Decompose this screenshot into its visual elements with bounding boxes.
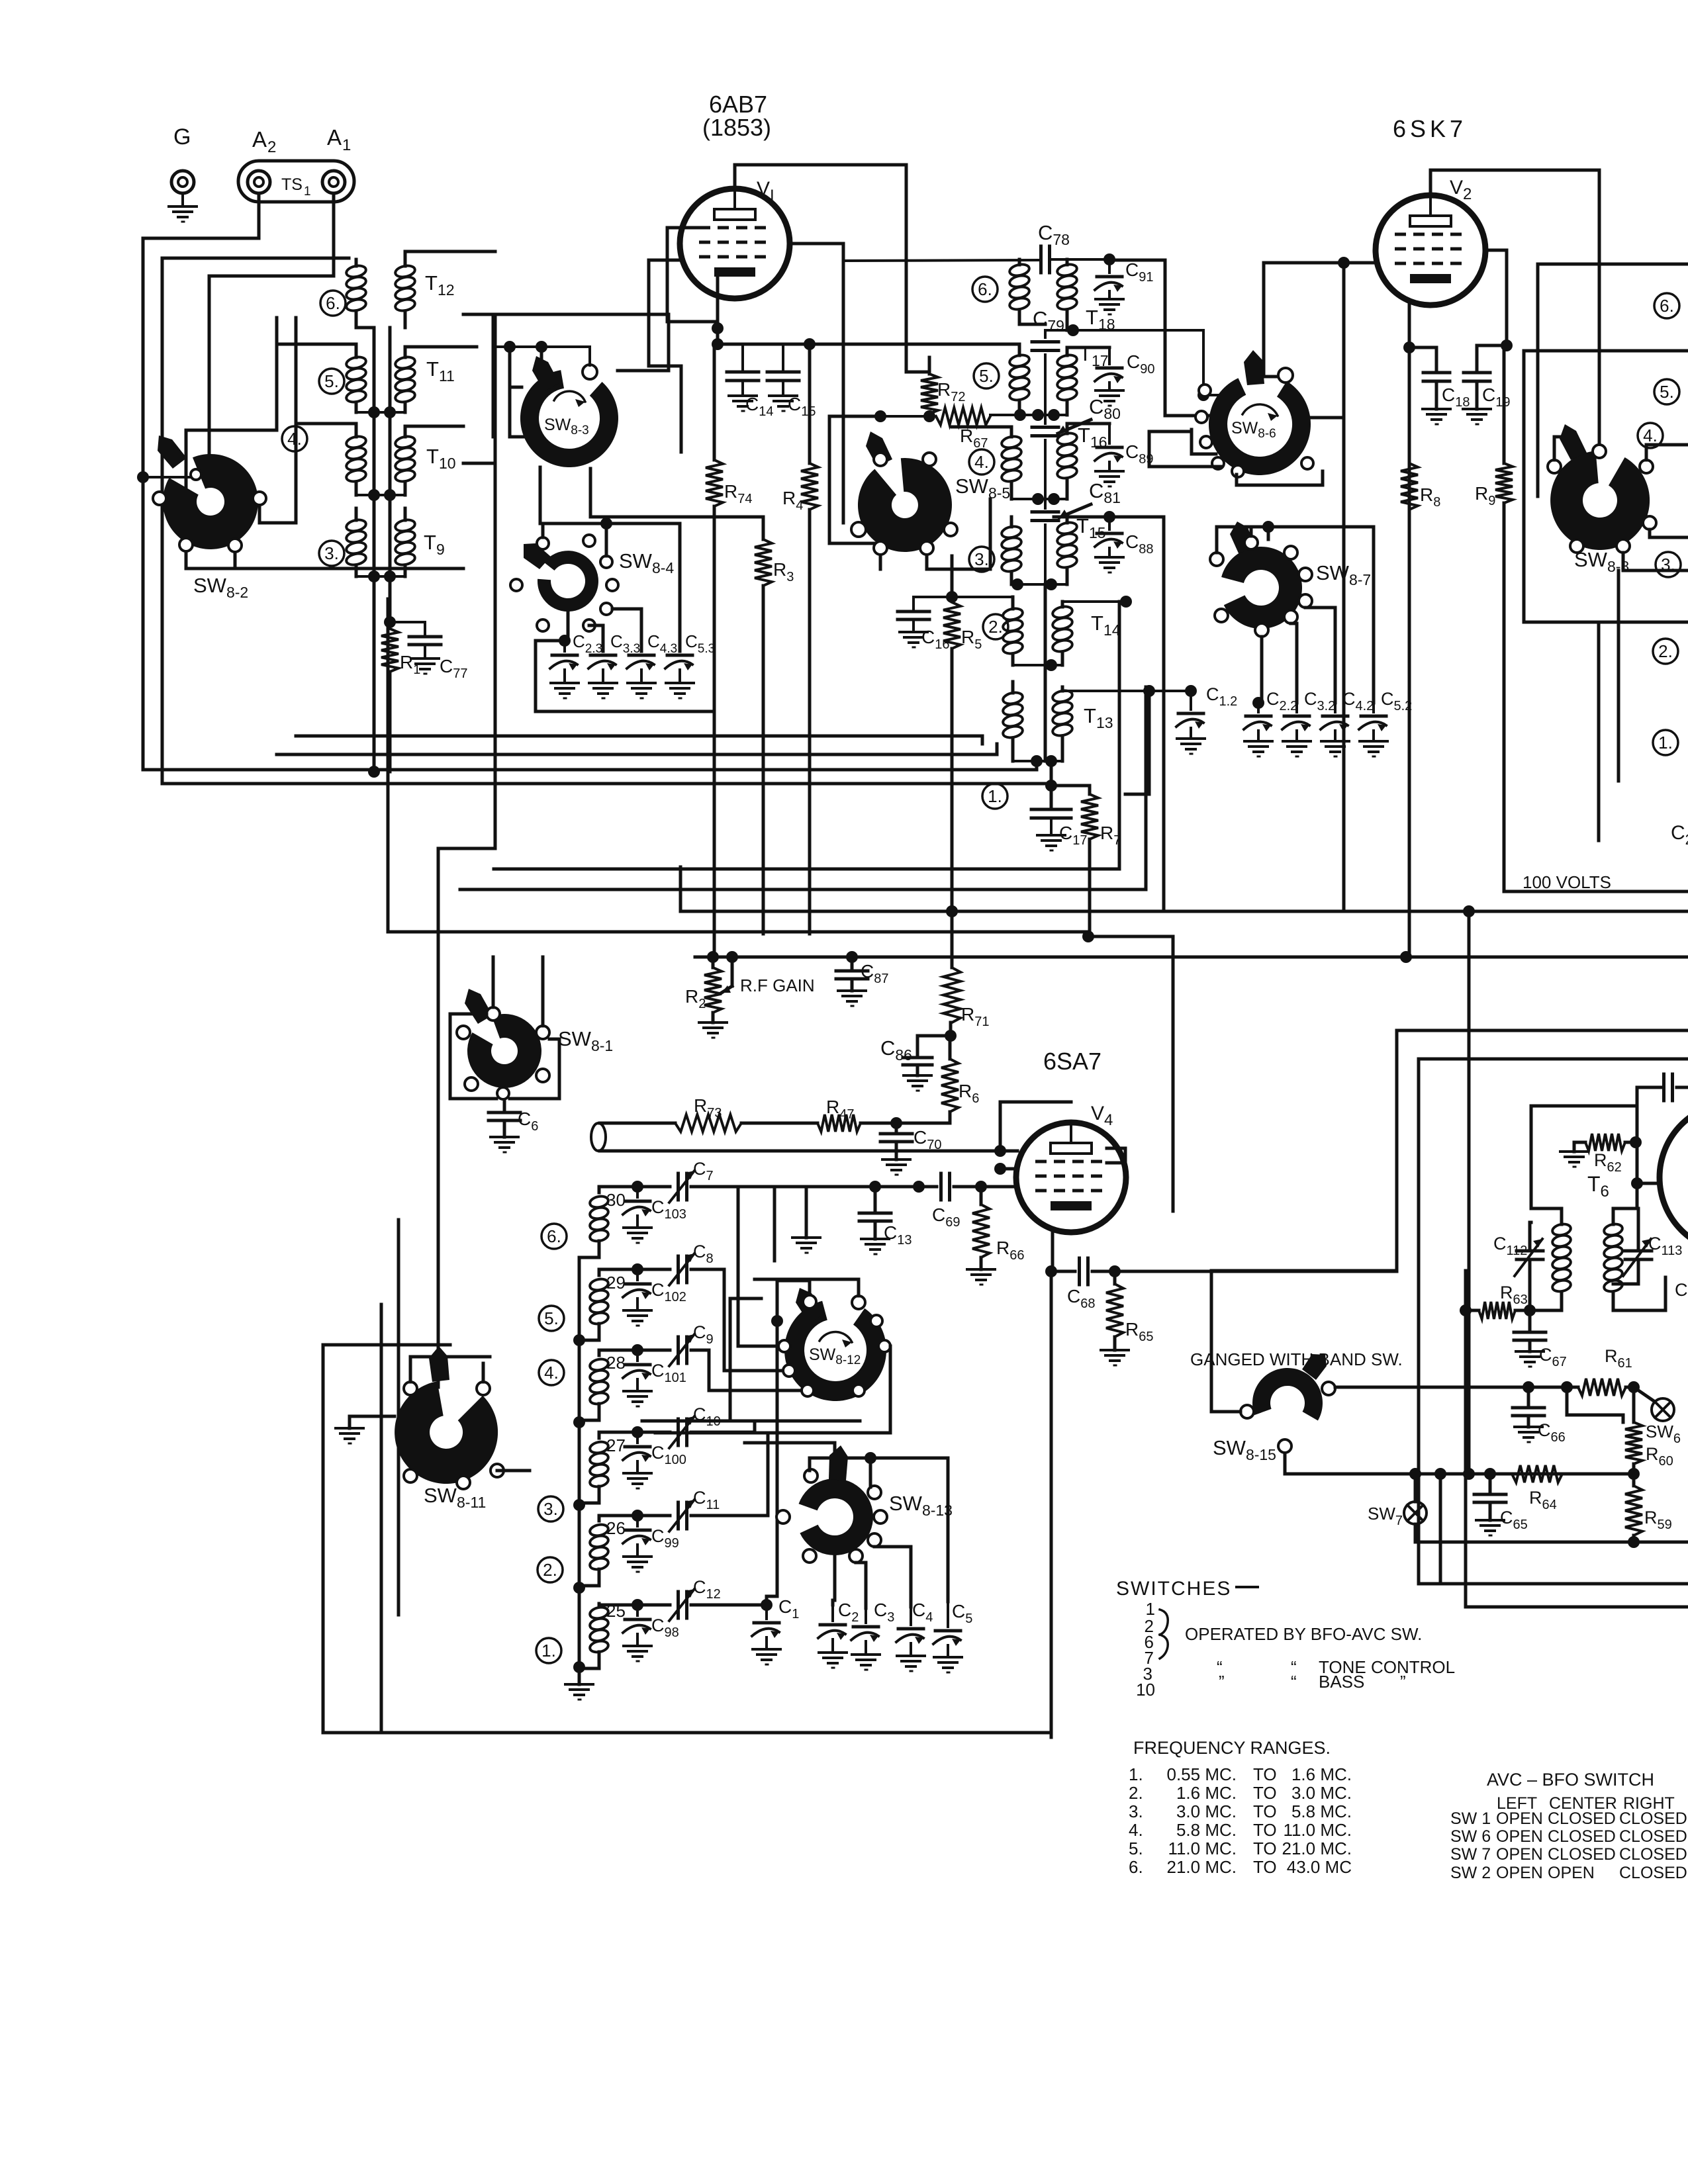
wire into V3	[1664, 1277, 1667, 1310]
node 4 right	[1638, 423, 1663, 448]
svg-text:1.: 1.	[1658, 733, 1673, 752]
wire SW8-3 bottom leads	[540, 467, 755, 523]
loop left	[591, 1123, 1004, 1151]
ground SW8-11	[336, 1416, 395, 1443]
wire V4 top	[1000, 1102, 1071, 1151]
junction C81 row	[1011, 493, 1067, 505]
resistor R62	[1560, 1134, 1642, 1175]
avc table row SW 2	[1450, 1864, 1687, 1882]
junction T10 bottom	[356, 489, 405, 501]
wire R71 bottom	[949, 1023, 953, 1036]
wire SW8-6 bottom	[1237, 471, 1323, 485]
svg-text:4.: 4.	[1129, 1820, 1143, 1840]
svg-text:3.0 MC.: 3.0 MC.	[1176, 1801, 1237, 1821]
svg-text:26: 26	[606, 1518, 626, 1538]
rotary switch SW8-12	[778, 1288, 890, 1401]
frequency range row 2.	[1129, 1783, 1352, 1803]
avc table row SW 6	[1450, 1827, 1687, 1846]
trimmer C98	[599, 1599, 679, 1661]
wire R3 top	[755, 516, 763, 519]
svg-text:1.6 MC.: 1.6 MC.	[1291, 1764, 1352, 1784]
transformer T6 secondary	[1603, 1208, 1665, 1310]
wire SW8-15 out	[1285, 1453, 1634, 1474]
wire SW8-12 top leads	[767, 1281, 859, 1605]
trimmer C112	[1493, 1222, 1543, 1310]
variable capacitor C8	[669, 1242, 783, 1371]
wire V2 top	[1430, 170, 1599, 451]
svg-text:4.: 4.	[544, 1363, 559, 1383]
wire bus L3	[460, 687, 1146, 889]
junction V2 grid	[1338, 257, 1350, 911]
capacitor C79	[1032, 307, 1064, 415]
capacitor C65	[1474, 1474, 1528, 1535]
svg-text:0.55 MC.: 0.55 MC.	[1167, 1764, 1237, 1784]
wire T16 leads	[952, 424, 1109, 499]
wire A1 drop	[209, 193, 334, 457]
wire SW8-8 leads	[1554, 437, 1688, 570]
transformer T13	[1002, 689, 1113, 739]
wire T12 right lead	[405, 251, 495, 328]
svg-text:TO: TO	[1253, 1801, 1277, 1821]
resistor R8	[1401, 463, 1440, 957]
transformer T18	[1009, 263, 1115, 333]
resistor R67	[936, 408, 990, 451]
svg-text:OPEN: OPEN	[1496, 1809, 1543, 1828]
junction T14 top right	[1062, 596, 1132, 608]
rotary switch SW8-11	[395, 1346, 504, 1511]
oscillator coil 29	[589, 1273, 626, 1326]
junction row R67	[990, 409, 1067, 421]
frequency range row 1.	[1129, 1764, 1352, 1784]
svg-text:(1853): (1853)	[702, 114, 771, 141]
svg-text:27: 27	[606, 1435, 626, 1455]
label C2x right edge	[1671, 822, 1688, 848]
svg-text:A: A	[252, 127, 267, 152]
rotary switch SW8-1	[457, 989, 613, 1099]
node 6 left	[320, 291, 346, 316]
frequency range row 6.	[1129, 1857, 1352, 1877]
wire R1 bottom	[389, 672, 392, 772]
svg-text:28: 28	[606, 1353, 626, 1373]
svg-text:1.6 MC.: 1.6 MC.	[1176, 1783, 1237, 1803]
svg-text:6.: 6.	[1129, 1857, 1143, 1877]
transformer T11	[346, 355, 455, 404]
svg-text:21.0 MC.: 21.0 MC.	[1167, 1857, 1237, 1877]
wire T12 left lead	[162, 258, 374, 328]
node 2 osc	[538, 1557, 563, 1582]
wire SW8-11 box	[323, 1220, 450, 1733]
svg-text:21.0 MC.: 21.0 MC.	[1282, 1839, 1352, 1858]
junction C70	[890, 1117, 902, 1129]
svg-text:TS: TS	[281, 175, 303, 194]
brace	[1160, 1610, 1168, 1659]
svg-text:TO: TO	[1253, 1764, 1277, 1784]
svg-text:30: 30	[606, 1190, 626, 1210]
wire T18 leads	[1019, 259, 1067, 330]
ground mid osc	[774, 1187, 820, 1261]
capacitor C64	[1637, 1074, 1688, 1304]
svg-text:3.: 3.	[974, 549, 989, 569]
trimmer C3	[851, 1600, 894, 1670]
wire C68 to right	[1115, 1270, 1397, 1273]
capacitor C87	[836, 957, 888, 1006]
svg-text:4.: 4.	[974, 452, 989, 472]
node 2 mid	[983, 614, 1008, 639]
transformer T15	[1001, 514, 1106, 573]
node 6 right	[1654, 293, 1679, 318]
svg-text:G: G	[173, 124, 191, 150]
svg-text:100 VOLTS: 100 VOLTS	[1523, 872, 1611, 892]
svg-text:3.: 3.	[324, 543, 339, 563]
wire R5 to bus	[946, 649, 958, 917]
svg-text:6.: 6.	[978, 279, 992, 299]
wire SW8-7 leads	[1262, 608, 1335, 703]
svg-text:CLOSED: CLOSED	[1548, 1845, 1616, 1864]
rotary switch SW8-15	[1213, 1354, 1335, 1463]
coil 30 bottom lead	[579, 1241, 599, 1257]
rotary switch SW8-4	[510, 535, 674, 631]
wire T10 leads	[296, 424, 463, 495]
wire T9 leads	[356, 508, 405, 576]
resistor R4	[782, 344, 818, 934]
capacitor C78	[843, 221, 1109, 273]
wire SW8-13 top	[745, 1443, 948, 1602]
trimmer C101	[599, 1344, 686, 1406]
svg-text:2.: 2.	[543, 1560, 557, 1580]
resistor R73	[675, 1095, 741, 1132]
resistor R5	[943, 602, 982, 652]
node 5 osc	[539, 1306, 564, 1331]
transformer T6 primary	[1530, 1106, 1637, 1310]
wire bus B1	[296, 736, 982, 744]
resistor R3	[755, 517, 794, 934]
wire C1 row	[765, 1602, 769, 1605]
wire bus L2	[494, 602, 1119, 869]
wire T13 leads	[1013, 682, 1062, 761]
capacitor C19	[1463, 373, 1510, 424]
capacitor C69	[932, 1173, 1017, 1230]
label 100 VOLTS	[1523, 872, 1611, 892]
junction SW8-3 top wires	[493, 341, 590, 365]
junction T9 bottom	[356, 570, 405, 582]
oscillator coil 26	[589, 1518, 626, 1571]
wire T15 leads	[1011, 517, 1067, 584]
wire R73 to R47	[741, 1122, 818, 1125]
node 4 left	[282, 426, 307, 451]
trimmer C1	[752, 1605, 780, 1664]
svg-text:6SK7: 6SK7	[1393, 115, 1467, 142]
resistor R65	[1101, 1271, 1153, 1365]
svg-text:OPEN: OPEN	[1496, 1827, 1543, 1846]
wire V2 left grid	[1264, 263, 1377, 377]
resistor R1	[381, 629, 420, 677]
resistor R64	[1409, 1465, 1634, 1512]
svg-text:3.: 3.	[543, 1499, 558, 1519]
node 5 left	[319, 369, 344, 394]
resistor R63	[1460, 1283, 1536, 1319]
junction V4 out	[1045, 1265, 1121, 1277]
wire SW8-5 left box	[792, 244, 880, 543]
variable capacitor C9	[669, 1322, 801, 1390]
label T6	[1587, 1172, 1609, 1201]
lamp SW6	[1567, 1387, 1681, 1446]
capacitor C70	[880, 1123, 941, 1175]
terminal A1	[322, 125, 351, 193]
svg-text:3.: 3.	[1661, 555, 1675, 574]
svg-text:5.: 5.	[1129, 1839, 1143, 1858]
node 4 osc	[539, 1360, 564, 1385]
node 3 mid	[969, 547, 994, 572]
svg-text:5.: 5.	[324, 371, 339, 391]
svg-text:11.0 MC.: 11.0 MC.	[1168, 1839, 1237, 1858]
junction C1.2 row	[1062, 685, 1191, 697]
wire SW8-1 up	[493, 957, 543, 1026]
junction C1	[761, 1596, 799, 1621]
junction R4 top	[804, 338, 816, 350]
trimmer C88	[1095, 517, 1153, 572]
tube V2	[1376, 177, 1485, 305]
capacitor C14	[727, 344, 773, 419]
oscillator coil 28	[589, 1353, 626, 1406]
junction R72 bottom	[874, 410, 935, 422]
label AVC-BFO SWITCH	[1487, 1770, 1654, 1790]
trimmer C4.3	[612, 609, 677, 698]
node 6 osc	[541, 1224, 567, 1249]
avc table header	[1497, 1794, 1675, 1813]
wire SW8-2 terminals right	[235, 318, 296, 569]
wire bottom right bus	[1415, 1474, 1688, 1584]
junction C2.3 top	[559, 635, 571, 647]
junction V4 grid feeds	[994, 1145, 1017, 1175]
resistor R61	[1335, 1346, 1640, 1396]
wire SW8-13 bottom leads	[833, 1547, 911, 1608]
trimmer C99	[599, 1510, 679, 1572]
wire SW8-3 left terms	[510, 347, 523, 437]
node 1 mid	[982, 784, 1008, 809]
wire left of C1.2	[1125, 691, 1149, 794]
junction C91 top	[1103, 253, 1209, 416]
resistor R6	[941, 1036, 979, 1123]
trimmer C4	[896, 1600, 933, 1671]
svg-text:OPEN: OPEN	[1496, 1864, 1543, 1882]
ground below G	[169, 193, 197, 222]
label RF GAIN	[740, 976, 815, 995]
svg-text:1: 1	[342, 136, 351, 154]
capacitor C80	[1032, 415, 1058, 499]
wire V2 g2 right	[1485, 250, 1507, 345]
junction T13 bottom	[1013, 755, 1062, 767]
junction T15 bottom	[1011, 578, 1067, 590]
resistor R66	[967, 1187, 1024, 1285]
capacitor C15	[767, 344, 816, 419]
svg-text:BASS: BASS	[1319, 1672, 1364, 1692]
svg-text:”: ”	[1219, 1672, 1225, 1692]
wire center-left coil bus A	[373, 328, 376, 772]
label C81	[1059, 479, 1121, 518]
transformer T14	[1002, 605, 1121, 655]
oscillator coil 27	[589, 1435, 626, 1488]
trimmer C4.2	[1321, 689, 1374, 756]
svg-text:GANGED WITH BAND SW.: GANGED WITH BAND SW.	[1190, 1349, 1403, 1369]
capacitor C66	[1513, 1386, 1566, 1445]
svg-text:1.: 1.	[541, 1641, 556, 1661]
rotary switch SW8-2	[153, 435, 266, 601]
wire bus B4	[162, 782, 1051, 786]
wire osc row	[691, 1181, 987, 1193]
wire nested right mid2	[1466, 1271, 1688, 1607]
trimmer C5.2	[1359, 689, 1412, 756]
svg-text:AVC – BFO SWITCH: AVC – BFO SWITCH	[1487, 1770, 1654, 1790]
svg-text:R.F GAIN: R.F GAIN	[740, 976, 815, 995]
wire SW8-12 box	[642, 1279, 890, 1433]
node 1 right	[1653, 730, 1678, 755]
variable capacitor C11	[669, 1433, 768, 1531]
svg-text:2: 2	[267, 138, 276, 156]
lamp SW7	[1368, 1474, 1427, 1542]
wire V1 bottom row	[718, 343, 1019, 346]
node 4 mid	[969, 449, 994, 475]
frequency range row 3.	[1129, 1801, 1352, 1821]
svg-text:29: 29	[606, 1273, 626, 1293]
svg-text:5.: 5.	[1660, 382, 1674, 402]
svg-text:TO: TO	[1253, 1820, 1277, 1840]
wire SW8-4 top	[543, 518, 680, 651]
capacitor C68	[1067, 1258, 1115, 1311]
wire bus L1	[438, 318, 495, 1387]
wire bus B2	[277, 744, 997, 754]
svg-text:6.: 6.	[547, 1226, 561, 1246]
transformer T12	[346, 264, 455, 312]
svg-text:5.: 5.	[979, 366, 994, 386]
wire SW8-15 wiper	[1211, 1390, 1241, 1412]
svg-text:SWITCHES: SWITCHES	[1116, 1578, 1231, 1600]
trimmer C2.2	[1244, 689, 1297, 756]
rotary switch SW8-5	[851, 432, 957, 555]
ground C77	[411, 659, 439, 674]
svg-text:TO: TO	[1253, 1857, 1277, 1877]
capacitor C67	[1514, 1310, 1567, 1369]
svg-text:”: ”	[1400, 1672, 1406, 1692]
wire bus L5	[1082, 931, 1173, 1211]
partial tube V3	[1660, 1103, 1688, 1252]
potentiometer R2	[685, 957, 732, 1038]
coil 28 bottom lead	[579, 1404, 599, 1420]
capacitor C6	[489, 1100, 538, 1152]
terminal G	[171, 124, 194, 193]
node 2 right	[1653, 639, 1678, 664]
wire SW8-6 left cluster	[1149, 430, 1221, 467]
junction V2 cathode	[1403, 340, 1513, 353]
svg-text:5.8 MC.: 5.8 MC.	[1291, 1801, 1352, 1821]
svg-text:OPEN: OPEN	[1496, 1845, 1543, 1864]
wire SW8-8 box	[1524, 264, 1688, 622]
trimmer C5	[933, 1601, 972, 1672]
wire SW8-7 top	[1217, 521, 1374, 703]
rotary switch SW8-8	[1548, 424, 1656, 575]
junction C16 row	[914, 591, 1013, 603]
wire V4 bottom	[1051, 1232, 1055, 1271]
wire SW8-11 leads	[410, 1357, 530, 1471]
junction T14 bottom	[1013, 659, 1062, 671]
label SWITCHES	[1116, 1578, 1258, 1600]
resistor R9	[1475, 345, 1688, 891]
capacitor C77	[390, 622, 467, 681]
junction SW8-12 rotor	[771, 1315, 783, 1327]
wire V4 out row	[1051, 1270, 1075, 1273]
wire mid vertical continue	[1044, 584, 1047, 665]
oscillator coil 25	[589, 1601, 626, 1654]
transformer T9	[346, 518, 445, 567]
terminal strip TS1	[238, 161, 354, 202]
resistor R60	[1625, 1387, 1673, 1474]
switch list numbers	[1136, 1599, 1155, 1700]
trimmer C3.3	[588, 625, 640, 698]
junction SW8-2 wiper	[137, 471, 191, 483]
trimmer C3.2	[1282, 689, 1335, 756]
variable capacitor C7	[669, 1159, 778, 1346]
label SW8-5 text	[955, 475, 1010, 502]
svg-text:2.: 2.	[1129, 1783, 1143, 1803]
frequency range row 4.	[1129, 1820, 1352, 1840]
node 5 mid	[974, 363, 999, 388]
svg-text:A: A	[327, 125, 342, 150]
wire SW8-5 to C16 row	[951, 556, 954, 597]
svg-text:CLOSED: CLOSED	[1619, 1864, 1687, 1882]
svg-text:1.: 1.	[1129, 1764, 1143, 1784]
wire V1 cathode down	[716, 278, 720, 344]
resistor R7	[1051, 786, 1121, 936]
svg-text:1: 1	[304, 185, 311, 199]
wire second left vertical	[161, 258, 164, 784]
trimmer C113	[1613, 1208, 1682, 1284]
trimmer C2.3	[550, 631, 602, 698]
wire grid1 row	[1004, 1150, 1017, 1153]
svg-text:SW 2: SW 2	[1450, 1864, 1491, 1882]
wire SW8-1 box	[450, 1014, 559, 1099]
capacitor C16	[898, 597, 949, 652]
capacitor C18	[1423, 373, 1470, 424]
node 3 osc	[538, 1496, 563, 1522]
node 3 right	[1656, 552, 1681, 577]
svg-text:6.: 6.	[326, 293, 340, 313]
wire SW8-2 box	[186, 430, 463, 569]
avc table row SW 7	[1450, 1845, 1687, 1864]
svg-text:CLOSED: CLOSED	[1619, 1809, 1687, 1828]
resistor R74	[706, 344, 752, 957]
wire R74 top	[714, 343, 718, 346]
rotary switch SW8-6	[1196, 350, 1313, 477]
wire center-left coil bus B	[389, 328, 392, 622]
svg-text:OPERATED BY BFO-AVC SW.: OPERATED BY BFO-AVC SW.	[1185, 1624, 1422, 1644]
svg-text:SW 7: SW 7	[1450, 1845, 1491, 1864]
capacitor C17	[1031, 809, 1087, 850]
wire T13 to C17	[1050, 761, 1053, 809]
wire mid vertical continue2	[1044, 665, 1047, 761]
svg-text:10: 10	[1136, 1680, 1155, 1700]
wire SW8-4 bottom to C2.3	[567, 612, 570, 641]
node 3 left	[319, 541, 344, 566]
trimmer C5.3	[665, 631, 715, 698]
svg-text:CLOSED: CLOSED	[1619, 1845, 1687, 1864]
frequency range row 5.	[1129, 1839, 1352, 1858]
label bass	[1219, 1672, 1406, 1692]
junction T18 bottom	[1045, 324, 1221, 401]
wire left vert to SW8-15	[1211, 1030, 1688, 1390]
oscillator coil 30	[589, 1190, 626, 1243]
wire SW8-6 right terminal	[1311, 416, 1342, 420]
wire T11 leads	[277, 344, 477, 412]
svg-text:6.: 6.	[1660, 296, 1674, 316]
